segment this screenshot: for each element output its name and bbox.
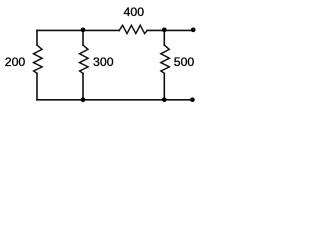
svg-text:400: 400: [124, 5, 145, 19]
wire right branch top stub: [163, 30, 165, 45]
wire left branch bottom stub: [36, 73, 38, 100]
svg-text:200: 200: [5, 55, 26, 69]
wire middle branch bottom stub: [82, 73, 84, 100]
wire middle branch top stub: [82, 30, 84, 45]
wire right branch bottom stub: [163, 73, 165, 100]
resistor 400: [119, 25, 147, 33]
node junction top middle: [81, 27, 86, 32]
node terminal bottom right: [190, 97, 195, 102]
wire left branch top stub: [36, 30, 38, 45]
resistor 200: [34, 45, 43, 73]
node junction bottom right: [162, 97, 167, 102]
resistor 500: [161, 45, 170, 73]
node junction bottom middle: [81, 97, 86, 102]
svg-text:500: 500: [174, 55, 195, 69]
wire bottom bus: [37, 99, 192, 101]
node terminal top right: [191, 27, 196, 32]
node junction top right: [162, 27, 167, 32]
wire top bus right: [147, 29, 193, 31]
wire top bus left: [37, 29, 119, 31]
svg-text:300: 300: [93, 55, 114, 69]
resistor 300: [80, 45, 89, 73]
